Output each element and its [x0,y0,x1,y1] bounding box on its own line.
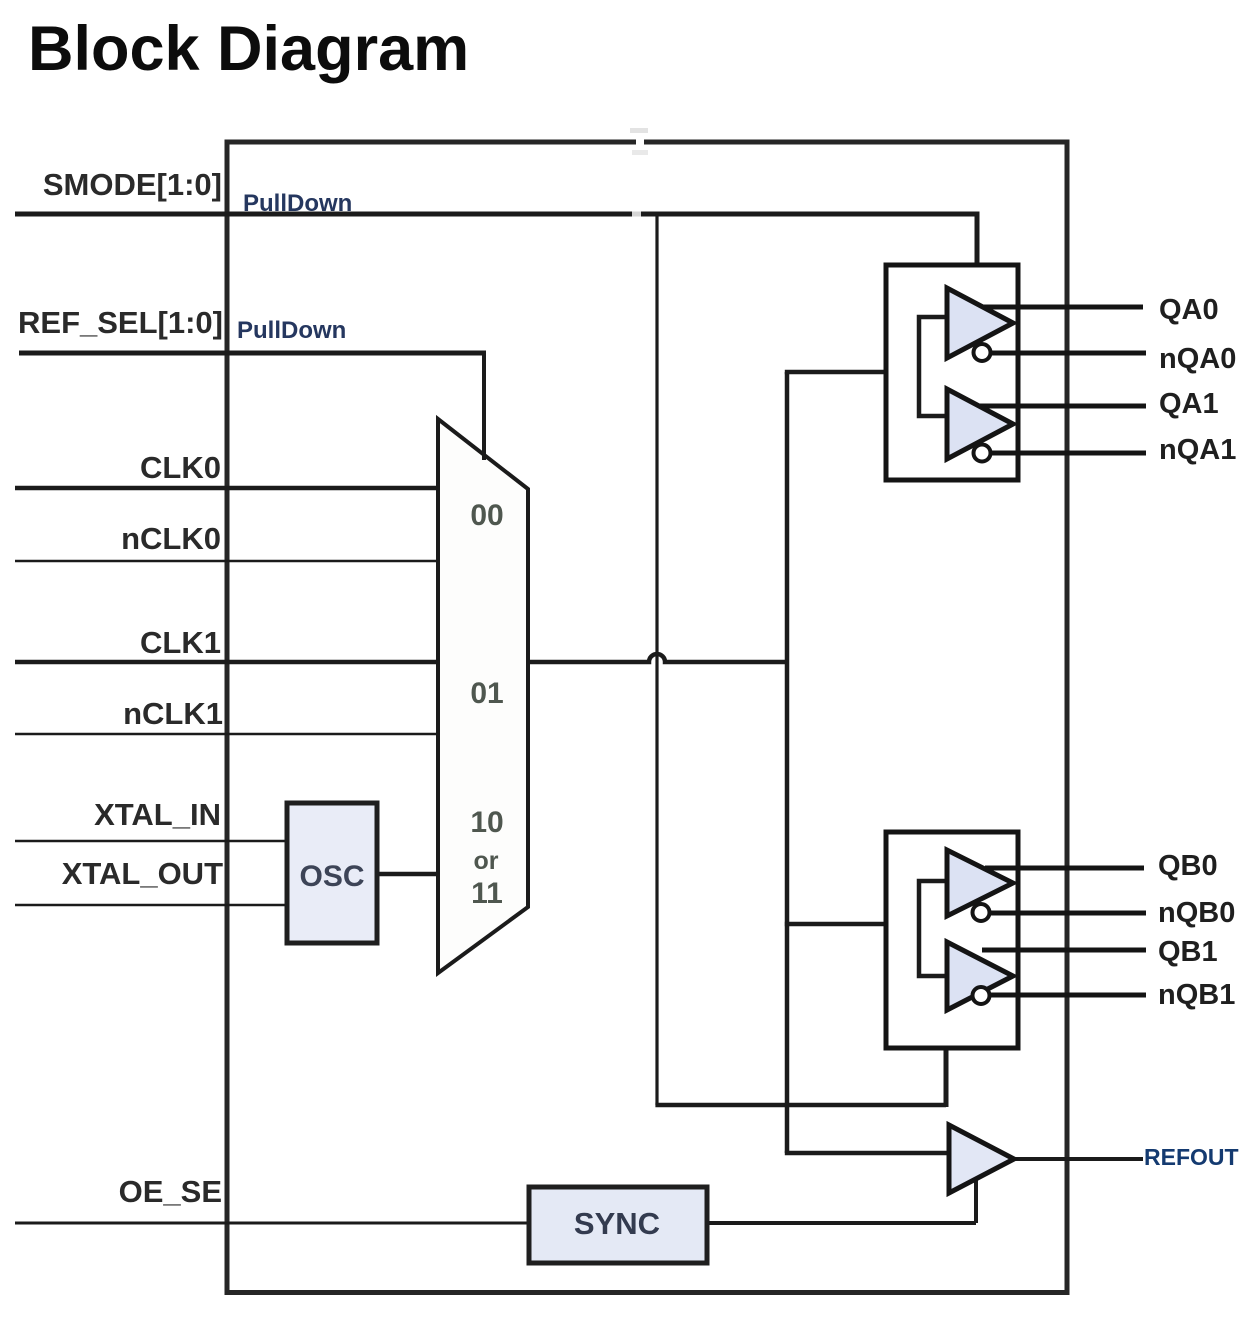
svg-text:OSC: OSC [299,860,364,893]
svg-text:XTAL_IN: XTAL_IN [94,797,221,832]
svg-text:REF_SEL[1:0]: REF_SEL[1:0] [18,305,223,340]
chip boundary [227,142,1067,1293]
wire bank A input connector [919,317,947,416]
wire QB0 output [985,866,1144,871]
wire CLK0 [15,486,440,491]
wire nQB1 output [989,993,1146,998]
bubble nQA0 [974,344,991,361]
wire bottom horizontal to bank B [655,1103,946,1108]
svg-text:QA1: QA1 [1159,388,1219,420]
svg-text:00: 00 [470,499,503,532]
svg-text:CLK1: CLK1 [140,625,221,660]
svg-text:or: or [474,847,499,875]
wire vertical distribution bus [785,372,790,1153]
oscillator OSC [287,803,377,943]
buffer REFOUT [949,1125,1014,1193]
mux M1 (input select) [438,419,528,973]
wire QB1 output [982,948,1146,953]
buffer QB1 [947,942,1013,1010]
svg-text:10: 10 [470,806,503,839]
wire REFOUT output [1012,1157,1143,1161]
bubble nQA1 [974,445,991,462]
svg-text:SYNC: SYNC [574,1206,660,1241]
svg-text:01: 01 [470,677,503,710]
bubble nQB0 [973,904,990,921]
wire feed into bank A [785,370,919,375]
svg-text:SMODE[1:0]: SMODE[1:0] [43,167,222,202]
svg-text:OE_SE: OE_SE [119,1174,222,1209]
notch artifact on top border [636,137,644,147]
wire nCLK0 [15,560,440,563]
sync block SYNC [529,1187,707,1263]
svg-text:PullDown: PullDown [243,190,352,217]
wire REF_SEL select vertical into mux [482,351,486,461]
svg-text:nQB1: nQB1 [1158,979,1235,1011]
wire nQB0 output [989,911,1146,916]
svg-text:nQB0: nQB0 [1158,897,1235,929]
wire bank B input connector [919,881,947,976]
buffer QA0 [947,288,1013,358]
wire SYNC output to REFOUT buffer [707,1179,976,1223]
wire REF_SEL horizontal [19,351,484,356]
wire mux output with hop over node [528,654,787,662]
svg-text:XTAL_OUT: XTAL_OUT [62,856,223,891]
svg-text:nCLK1: nCLK1 [123,696,223,731]
wire XTAL_OUT [15,904,289,907]
wire feed into bank B [785,922,919,927]
wire CLK1 [15,660,440,665]
wire nQA0 output [988,351,1146,356]
wire up into bank B bottom [944,1046,949,1107]
buffer bank A box [886,265,1018,480]
svg-text:nCLK0: nCLK0 [121,521,221,556]
wire XTAL_IN [15,840,289,843]
wire nQA1 output [988,451,1146,456]
svg-text:QA0: QA0 [1159,294,1219,326]
buffer QA1 [947,389,1013,459]
wire SMODE branch vertical (node at x=657) [655,214,658,1105]
wire SMODE vertical into buffer bank A [975,212,980,266]
buffer QB0 [947,850,1013,916]
wire OE_SE into SYNC [15,1222,529,1225]
svg-text:REFOUT: REFOUT [1144,1144,1239,1170]
svg-text:Block Diagram: Block Diagram [28,14,469,84]
wire QA0 output [983,305,1143,310]
wire nCLK1 [15,733,440,736]
svg-text:PullDown: PullDown [237,317,346,344]
svg-text:nQA0: nQA0 [1159,343,1236,375]
wire QA1 output [980,404,1146,409]
wire feed into REFOUT buffer [785,1151,951,1156]
bubble nQB1 [973,987,990,1004]
svg-text:QB1: QB1 [1158,936,1218,968]
svg-text:11: 11 [471,877,503,910]
scan artifact break on SMODE wire [632,203,641,219]
svg-text:nQA1: nQA1 [1159,434,1236,466]
wire SMODE horizontal [15,212,977,217]
svg-text:CLK0: CLK0 [140,450,221,485]
wire OSC output to mux [377,872,440,877]
svg-text:QB0: QB0 [1158,850,1218,882]
buffer bank B box [886,832,1018,1048]
